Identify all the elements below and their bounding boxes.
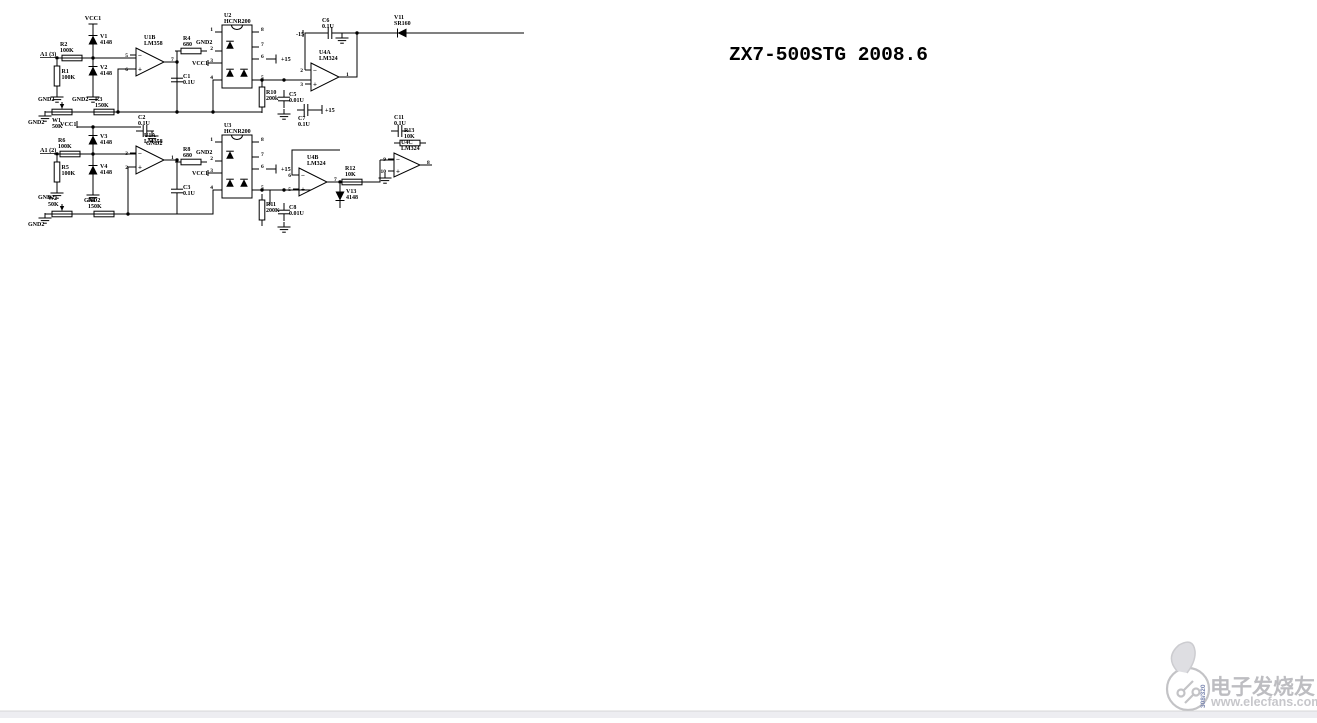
svg-text:200K: 200K [266, 208, 280, 214]
op-amp U1A [125, 133, 174, 174]
svg-text:GND2: GND2 [28, 120, 44, 126]
power +15 [266, 55, 291, 64]
diode V4 [89, 158, 113, 182]
junction [55, 152, 58, 155]
resistor R1 [54, 60, 75, 92]
svg-text:6: 6 [288, 173, 291, 179]
wire [92, 24, 94, 92]
svg-text:2: 2 [210, 46, 213, 52]
capacitor C2 [136, 115, 154, 137]
junction [338, 180, 341, 183]
capacitor C8 [278, 203, 305, 221]
svg-text:680: 680 [183, 153, 192, 159]
svg-text:150K: 150K [95, 103, 109, 109]
capacitor C3 [171, 182, 196, 200]
wire [252, 79, 311, 81]
wire [164, 61, 177, 63]
junction [91, 125, 94, 128]
svg-text:6: 6 [261, 164, 264, 170]
svg-text:−: − [313, 67, 317, 75]
diode V11 [394, 15, 411, 38]
wire [45, 111, 262, 113]
svg-text:GND2: GND2 [28, 222, 44, 228]
svg-text:A1 (2): A1 (2) [40, 147, 56, 154]
resistor R11 [259, 194, 280, 226]
svg-text:VCC1: VCC1 [60, 121, 77, 128]
svg-text:0.1U: 0.1U [322, 24, 335, 30]
watermark logo elecfans [1167, 642, 1209, 710]
svg-text:150K: 150K [88, 204, 102, 210]
op-amp U4B [288, 155, 337, 196]
svg-text:GND2: GND2 [72, 97, 88, 103]
svg-text:−: − [396, 156, 400, 164]
ground GND2 [28, 213, 52, 228]
svg-text:2: 2 [210, 156, 213, 162]
svg-text:5: 5 [125, 53, 128, 59]
power VCC1 [85, 15, 102, 24]
svg-text:VCC1: VCC1 [192, 171, 208, 177]
svg-text:A1 (3): A1 (3) [40, 51, 56, 58]
junction [91, 56, 94, 59]
svg-text:+: + [138, 66, 142, 74]
svg-text:0.1U: 0.1U [394, 121, 407, 127]
svg-text:0.1U: 0.1U [183, 191, 196, 197]
junction [260, 78, 263, 81]
svg-text:+: + [313, 81, 317, 89]
svg-text:www.elecfans.com: www.elecfans.com [1210, 695, 1317, 709]
svg-text:3: 3 [125, 151, 128, 157]
ground GND2 [38, 188, 64, 201]
ground GND2 [28, 111, 52, 126]
resistor R3 [88, 198, 120, 217]
node A1 (2) [40, 147, 57, 154]
wire [408, 32, 524, 34]
wire [420, 164, 432, 166]
resistor R8 [175, 147, 207, 165]
svg-text:VCC1: VCC1 [85, 15, 102, 22]
svg-text:100K: 100K [62, 75, 76, 81]
resistor R10 [259, 81, 279, 113]
power VCC1 [60, 121, 77, 128]
svg-text:0.1U: 0.1U [138, 121, 151, 127]
svg-text:100K: 100K [62, 171, 76, 177]
wire [336, 33, 357, 77]
svg-text:0.01U: 0.01U [289, 98, 305, 104]
title ZX7-500STG 2008.6 [729, 44, 928, 66]
junction [260, 188, 263, 191]
svg-text:6: 6 [125, 67, 128, 73]
potentiometer W2 [46, 196, 78, 217]
svg-text:−: − [138, 52, 142, 60]
svg-text:+: + [396, 168, 400, 176]
svg-text:LM324: LM324 [401, 146, 420, 152]
wire [176, 199, 178, 214]
ground [278, 222, 291, 232]
node GND2 [196, 40, 212, 46]
wire [252, 189, 311, 191]
capacitor C6 [321, 18, 339, 39]
power VCC1 [192, 170, 215, 177]
capacitor C11 [391, 115, 409, 137]
svg-text:2: 2 [300, 68, 303, 74]
op-amp U4A [300, 50, 349, 91]
svg-text:100K: 100K [58, 144, 72, 150]
wire [176, 89, 178, 112]
svg-text:+: + [138, 164, 142, 172]
svg-text:LM324: LM324 [307, 161, 326, 167]
svg-text:4148: 4148 [100, 170, 112, 176]
wire [213, 80, 215, 112]
junction [282, 78, 285, 81]
resistor R3 [88, 97, 120, 115]
svg-text:8: 8 [261, 27, 264, 33]
svg-text:680: 680 [183, 42, 192, 48]
capacitor C5 [278, 90, 305, 108]
svg-text:HCNR200: HCNR200 [224, 19, 251, 25]
junction [175, 110, 178, 113]
svg-text:ZX7-500STG 2008.6: ZX7-500STG 2008.6 [729, 44, 928, 66]
watermark text 308/320 [1200, 684, 1207, 708]
ground GND2 [84, 190, 100, 204]
capacitor C1 [171, 71, 196, 89]
junction [211, 110, 214, 113]
svg-text:5: 5 [288, 187, 291, 193]
svg-text:200k: 200k [266, 96, 279, 102]
watermark text 电子发烧友 [1210, 675, 1315, 699]
junction [116, 110, 119, 113]
svg-text:8: 8 [261, 137, 264, 143]
svg-text:+: + [301, 186, 305, 194]
node A1 (3) [40, 51, 57, 58]
svg-text:GND2: GND2 [38, 97, 54, 103]
wire [176, 51, 178, 88]
svg-text:0.1U: 0.1U [183, 80, 196, 86]
svg-text:4: 4 [210, 75, 213, 81]
junction [126, 212, 129, 215]
optocoupler U2 [210, 13, 264, 88]
power +15 [266, 165, 291, 174]
svg-text:GND2: GND2 [196, 150, 212, 156]
svg-text:SR160: SR160 [394, 21, 411, 27]
resistor R6 [54, 138, 86, 157]
ground GND2 [146, 131, 163, 147]
svg-text:308/320: 308/320 [1200, 684, 1207, 708]
junction [91, 152, 94, 155]
capacitor C7 [297, 104, 315, 128]
junction [175, 158, 178, 161]
svg-text:7: 7 [261, 42, 264, 48]
page edge strip [0, 711, 1317, 718]
resistor R13 [394, 128, 426, 146]
svg-text:+15: +15 [325, 107, 335, 114]
svg-text:GND2: GND2 [196, 40, 212, 46]
diode V1 [89, 28, 113, 52]
wire [292, 150, 340, 175]
optocoupler U3 [210, 123, 264, 198]
svg-text:+15: +15 [281, 166, 291, 173]
wire [57, 153, 136, 155]
wire [93, 126, 141, 128]
node -15 [296, 30, 304, 38]
svg-text:4148: 4148 [100, 140, 112, 146]
wire [128, 167, 136, 214]
svg-text:LM358: LM358 [144, 41, 163, 47]
node GND2 [196, 150, 212, 156]
svg-text:LM324: LM324 [319, 56, 338, 62]
svg-text:4148: 4148 [100, 40, 112, 46]
svg-text:10K: 10K [345, 172, 356, 178]
power VCC1 [192, 60, 215, 67]
svg-text:6: 6 [261, 54, 264, 60]
watermark text www.elecfans.com [1210, 695, 1317, 709]
diode V3 [89, 128, 113, 152]
svg-text:LM358: LM358 [144, 139, 163, 145]
svg-text:0.01U: 0.01U [289, 211, 305, 217]
wire [118, 69, 136, 112]
svg-text:4148: 4148 [100, 71, 112, 77]
svg-text:3: 3 [300, 82, 303, 88]
wire [357, 32, 396, 34]
potentiometer W1 [46, 102, 78, 130]
wire [164, 159, 177, 161]
ground [379, 173, 392, 183]
svg-text:50K: 50K [48, 202, 59, 208]
resistor R12 [336, 166, 368, 185]
wire [252, 190, 270, 205]
svg-text:1: 1 [210, 137, 213, 143]
wire [176, 160, 178, 183]
wire [305, 33, 324, 70]
wire [77, 127, 93, 190]
svg-text:−: − [138, 150, 142, 158]
power +15 [315, 105, 335, 114]
wire [380, 159, 394, 161]
resistor R2 [56, 42, 88, 61]
wire [327, 181, 365, 183]
junction [175, 60, 178, 63]
ground GND2 [38, 92, 64, 103]
svg-text:0.1U: 0.1U [298, 122, 311, 128]
wire [365, 160, 380, 182]
svg-text:HCNR200: HCNR200 [224, 129, 251, 135]
svg-text:7: 7 [261, 152, 264, 158]
wire [57, 57, 136, 59]
svg-text:−: − [301, 172, 305, 180]
junction [55, 56, 58, 59]
diode V13 [336, 184, 359, 208]
ground [336, 33, 349, 43]
junction [282, 188, 285, 191]
diode V2 [89, 59, 113, 83]
wire [261, 107, 263, 112]
junction [355, 31, 358, 34]
svg-text:100K: 100K [60, 48, 74, 54]
svg-text:1: 1 [210, 27, 213, 33]
ground GND2 [72, 92, 100, 103]
svg-text:+15: +15 [281, 56, 291, 63]
op-amp U4C [381, 140, 431, 177]
ground [278, 109, 291, 119]
svg-text:VCC1: VCC1 [192, 61, 208, 67]
svg-text:4148: 4148 [346, 195, 358, 201]
wire [45, 190, 215, 214]
resistor R4 [175, 36, 207, 54]
op-amp U1B [125, 35, 174, 76]
resistor R5 [54, 156, 75, 188]
